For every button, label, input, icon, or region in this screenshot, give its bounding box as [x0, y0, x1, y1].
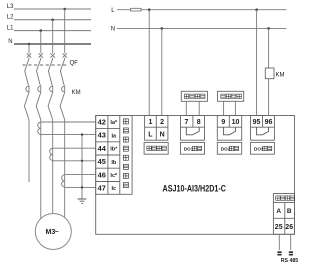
node dot row45 [81, 160, 83, 162]
svg-text:Ic: Ic [112, 186, 117, 192]
relay contact DO3 [257, 127, 269, 135]
RS485 terminal A [277, 251, 281, 255]
svg-text:95: 95 [253, 119, 261, 126]
node dot row43 [81, 133, 83, 135]
svg-text:47: 47 [98, 183, 106, 192]
vertical label three-phase current input [123, 119, 128, 188]
svg-text:96: 96 [265, 119, 273, 126]
wires alarm box2 to terminals 9 10 [224, 101, 236, 115]
CT1 current transformer [38, 122, 41, 134]
wire terminal 25 down [278, 234, 280, 250]
svg-text:KM: KM [276, 73, 285, 79]
terminals A B [276, 208, 292, 215]
wire terminal 26 down [290, 234, 292, 250]
wire phase A to motor [40, 120, 42, 219]
RS485 terminal B [289, 251, 293, 255]
svg-text:N: N [8, 39, 12, 45]
motor M3~ [35, 214, 71, 250]
alarm output box 1 [181, 91, 207, 101]
ground symbol [78, 199, 87, 203]
svg-text:9: 9 [221, 119, 225, 126]
svg-text:2: 2 [160, 119, 164, 126]
breaker QF + contactor KM pole 2 [36, 53, 43, 119]
terminal labels Ia*..Ic [110, 120, 118, 192]
DO2 label box [217, 142, 241, 154]
wire CT3 to terminal 46 [65, 174, 96, 176]
svg-text:8: 8 [197, 119, 201, 126]
wire CT2 to terminal 44 [53, 147, 96, 149]
CT3 current transformer [62, 175, 65, 187]
terminal cells 9 10 [217, 116, 241, 141]
relay contact DO2 [224, 127, 236, 135]
terminal numbers 42-47 [98, 118, 107, 193]
svg-text:N: N [111, 27, 115, 33]
svg-text:Ia*: Ia* [110, 120, 118, 126]
node dot on N bus [28, 43, 31, 46]
relay contact DO1 [186, 127, 199, 135]
svg-text:42: 42 [98, 118, 106, 127]
wire CT1 to terminal 43 [41, 134, 96, 136]
breaker QF + contactor KM pole 3 [48, 53, 55, 119]
DO3 label box [251, 142, 275, 154]
wire N pole stub [28, 120, 30, 182]
wire CT3 to terminal 47 [65, 186, 96, 188]
svg-text:Ib: Ib [111, 160, 117, 166]
bus L3 [7, 4, 91, 10]
wire L supply [111, 8, 286, 14]
node dot N to terminal2 [161, 27, 164, 30]
svg-text:Ic*: Ic* [110, 173, 118, 179]
wire L to terminal 1 [148, 10, 150, 116]
svg-text:7: 7 [185, 119, 189, 126]
svg-text:L3: L3 [7, 4, 14, 10]
CT common ground wire [81, 135, 83, 199]
svg-text:A: A [276, 208, 281, 215]
DO1 label box [181, 142, 205, 154]
svg-text:43: 43 [98, 131, 106, 140]
terminal numbers 1 2 and L N [148, 119, 164, 139]
svg-text:45: 45 [98, 157, 106, 166]
wire KM coil to terminal 96 [268, 79, 270, 116]
bus L2 [7, 15, 91, 21]
wire N to terminal 2 [161, 28, 163, 115]
svg-text:ASJ10-AI3/H2D1-C: ASJ10-AI3/H2D1-C [163, 184, 227, 194]
breaker QF + contactor KM pole 1 [24, 53, 31, 119]
node dot L to terminal1 [148, 8, 151, 11]
wire CT1 to terminal 42 [41, 121, 96, 123]
wire phase C to motor [64, 120, 66, 218]
device ASJ10 outline [96, 116, 295, 235]
auxiliary power label box [144, 142, 168, 154]
svg-text:KM: KM [72, 90, 81, 96]
node dot on L1 bus [40, 29, 43, 32]
terminal strip 42-47 grid [96, 116, 132, 195]
CT2 current transformer [50, 148, 53, 160]
alarm output box 2 [218, 91, 244, 101]
comm port title [276, 196, 295, 200]
node dot row47 [81, 186, 83, 188]
svg-text:~: ~ [55, 229, 59, 236]
wire N to KM coil [268, 28, 270, 68]
wire CT2 to terminal 45 [53, 160, 96, 162]
terminal cells 7 8 [181, 116, 205, 141]
node dot N to KM coil [267, 27, 270, 30]
svg-text:25: 25 [275, 224, 283, 231]
fuse FU [131, 8, 142, 11]
breaker QF + contactor KM pole 4 [60, 53, 67, 119]
svg-text:26: 26 [285, 224, 293, 231]
svg-text:10: 10 [232, 119, 240, 126]
svg-text:L: L [148, 132, 153, 139]
node dot on L2 bus [51, 19, 54, 22]
svg-text:QF: QF [70, 61, 79, 67]
terminal cells 1 2 [145, 116, 168, 141]
terminal cells 95 96 [251, 116, 275, 141]
svg-text:N: N [160, 132, 165, 139]
terminals 25 26 [275, 224, 293, 231]
svg-text:46: 46 [98, 170, 106, 179]
svg-text:L1: L1 [7, 26, 14, 32]
bus N [8, 39, 91, 45]
QF linkage dashed line [23, 64, 68, 66]
svg-text:RS 485: RS 485 [281, 258, 298, 264]
svg-text:L2: L2 [7, 15, 14, 21]
wire phase B to motor [52, 120, 54, 214]
svg-text:44: 44 [98, 144, 107, 153]
svg-text:Ib*: Ib* [110, 147, 118, 153]
wire L to terminal 95 [256, 10, 258, 116]
wire N bus to QF pole1 [28, 44, 30, 53]
communication port box [273, 194, 294, 235]
wire L2 bus to QF pole3 [52, 20, 54, 54]
bus L1 [7, 26, 91, 32]
wire L3 bus to QF pole4 [64, 9, 66, 53]
wires alarm box1 to terminals 7 8 [186, 101, 199, 115]
wire L1 bus to QF pole2 [40, 31, 42, 54]
svg-text:B: B [287, 208, 292, 215]
node dot L to terminal95 [255, 8, 258, 11]
wire N supply [111, 27, 287, 33]
node dot on L3 bus [63, 8, 66, 11]
svg-text:1: 1 [148, 119, 152, 126]
KM coil [265, 68, 284, 79]
